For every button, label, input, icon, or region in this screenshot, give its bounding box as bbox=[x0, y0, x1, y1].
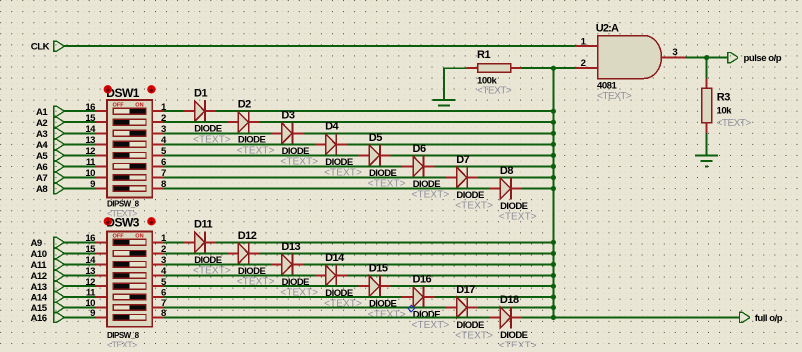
diode D17 bbox=[446, 297, 478, 319]
wire D16 cathode to bus bbox=[434, 296, 553, 298]
pin stub DSW3 pin 13 bbox=[96, 275, 107, 277]
svg-text:<TEXT>: <TEXT> bbox=[499, 212, 537, 223]
svg-text:13: 13 bbox=[85, 266, 95, 277]
DIP switch DSW3 (DIPSW_8) bbox=[107, 231, 152, 326]
wire bus to full o/p terminal bbox=[553, 316, 739, 318]
pin stub DSW1 pin 1 bbox=[152, 110, 163, 112]
diode D16 bbox=[402, 286, 434, 308]
svg-text:<TEXT>: <TEXT> bbox=[597, 91, 632, 102]
wire DSW1 pin 7 to D7 anode bbox=[164, 177, 446, 179]
svg-text:D1: D1 bbox=[194, 88, 207, 100]
svg-text:ON: ON bbox=[135, 102, 143, 108]
svg-text:<TEXT>: <TEXT> bbox=[412, 190, 450, 201]
diode D15 bbox=[359, 275, 391, 297]
wire junction down to R3 bbox=[706, 58, 708, 79]
svg-text:11: 11 bbox=[86, 288, 96, 299]
wire A4 to DSW1 pin 13 bbox=[63, 143, 96, 145]
terminal full o/p bbox=[739, 312, 749, 322]
svg-text:10: 10 bbox=[85, 168, 95, 179]
wire DSW1 pin 1 to D1 anode bbox=[164, 110, 184, 112]
pin stub DSW1 pin 7 bbox=[152, 177, 163, 179]
svg-text:14: 14 bbox=[85, 255, 96, 266]
diode D4 bbox=[315, 133, 347, 155]
svg-text:D2: D2 bbox=[238, 99, 251, 111]
wire A16 to DSW3 pin 9 bbox=[63, 316, 96, 318]
pin stub DSW3 pin 8 bbox=[152, 316, 163, 318]
wire D14 cathode to bus bbox=[347, 275, 553, 277]
wire A1 to DSW1 pin 16 bbox=[63, 110, 96, 112]
svg-text:12: 12 bbox=[85, 146, 95, 157]
junction row 1 bottom bbox=[551, 240, 556, 245]
svg-text:14: 14 bbox=[85, 124, 96, 135]
svg-text:A8: A8 bbox=[36, 184, 48, 195]
junction row 5 bottom bbox=[551, 284, 556, 289]
wire A5 to DSW1 pin 12 bbox=[63, 154, 96, 156]
junction row 1 top bbox=[551, 109, 556, 114]
junction row 2 top bbox=[551, 120, 556, 125]
wire CLK to U2:A pin 1 bbox=[63, 45, 575, 47]
svg-text:A14: A14 bbox=[31, 293, 48, 304]
svg-text:<TEXT>: <TEXT> bbox=[107, 340, 137, 347]
wire D13 cathode to bus bbox=[303, 263, 553, 265]
pin numbers DSW3 left (16..9) bbox=[85, 233, 96, 319]
terminal A1 bbox=[54, 106, 64, 116]
junction row 7 top bbox=[551, 175, 556, 180]
wire A3 to DSW1 pin 14 bbox=[63, 132, 96, 134]
pin stub DSW1 pin 8 bbox=[152, 188, 163, 190]
svg-text:D14: D14 bbox=[325, 252, 345, 264]
resistor R3 bbox=[702, 88, 712, 122]
svg-text:A13: A13 bbox=[31, 282, 47, 293]
wire A12 to DSW3 pin 13 bbox=[63, 275, 96, 277]
wire D4 cathode to bus bbox=[347, 143, 553, 145]
wire D7 cathode to bus bbox=[478, 177, 553, 179]
junction row 6 top bbox=[551, 164, 556, 169]
junction R1/bus/U2 pin 2 bbox=[551, 66, 556, 71]
terminal A10 bbox=[54, 248, 64, 258]
terminal A6 bbox=[54, 161, 64, 171]
wire DSW3 pin 6 to D16 anode bbox=[164, 296, 403, 298]
terminal A7 bbox=[54, 172, 64, 182]
wire DSW3 pin 4 to D14 anode bbox=[164, 275, 315, 277]
terminal A9 bbox=[54, 237, 64, 247]
junction row 3 top bbox=[551, 131, 556, 136]
diode D12 bbox=[227, 242, 259, 264]
svg-text:A11: A11 bbox=[31, 260, 48, 271]
terminal A8 bbox=[54, 183, 64, 193]
svg-text:D7: D7 bbox=[456, 154, 469, 166]
svg-text:A6: A6 bbox=[36, 162, 47, 173]
svg-text:A7: A7 bbox=[36, 173, 47, 184]
svg-text:DIPSW_8: DIPSW_8 bbox=[107, 199, 140, 208]
wire D2 cathode to bus bbox=[260, 121, 554, 123]
svg-text:A12: A12 bbox=[31, 271, 47, 282]
pin stub DSW1 pin 10 bbox=[96, 177, 107, 179]
wire DSW1 pin 6 to D6 anode bbox=[164, 165, 403, 167]
pin stub U2:A pin 1 bbox=[575, 45, 598, 47]
pin stub DSW1 pin 14 bbox=[96, 132, 107, 134]
pin stub DSW1 pin 6 bbox=[152, 165, 163, 167]
resistor R1 bbox=[478, 64, 511, 72]
pin numbers DSW3 right (1..8) bbox=[161, 233, 167, 319]
wire ground to R1 left bbox=[444, 68, 467, 100]
diode D8 bbox=[490, 178, 522, 200]
AND gate U2:A (4081) bbox=[598, 36, 662, 79]
pin stub DSW3 pin 3 bbox=[152, 263, 163, 265]
pin stub DSW1 pin 2 bbox=[152, 121, 163, 123]
pin stub DSW3 pin 2 bbox=[152, 252, 163, 254]
diode D18 bbox=[490, 306, 522, 328]
diode D2 bbox=[227, 111, 259, 133]
origin markers DSW1 bbox=[104, 85, 156, 93]
svg-text:<TEXT>: <TEXT> bbox=[477, 85, 512, 96]
svg-text:R3: R3 bbox=[717, 91, 730, 103]
terminal A3 bbox=[54, 128, 64, 138]
junction row 8 top bbox=[551, 186, 556, 191]
svg-text:A5: A5 bbox=[36, 151, 48, 162]
pin stub U2:A pin 2 bbox=[575, 67, 598, 69]
wire D3 cathode to bus bbox=[303, 132, 553, 134]
ground GND1 bbox=[433, 100, 456, 111]
wire A11 to DSW3 pin 14 bbox=[63, 263, 96, 265]
svg-text:D4: D4 bbox=[325, 121, 339, 133]
wire A2 to DSW1 pin 15 bbox=[63, 121, 96, 123]
pin stub U2:A pin 3 bbox=[662, 57, 686, 59]
svg-text:9: 9 bbox=[90, 179, 95, 190]
wire A15 to DSW3 pin 10 bbox=[63, 307, 96, 309]
pin stub DSW1 pin 12 bbox=[96, 154, 107, 156]
pin stub DSW3 pin 16 bbox=[96, 241, 107, 243]
wire U2 pin 3 to junction bbox=[685, 57, 707, 59]
svg-text:<TEXT>: <TEXT> bbox=[455, 331, 493, 342]
svg-text:A3: A3 bbox=[36, 129, 47, 140]
junction row 2 bottom bbox=[551, 251, 556, 256]
wire D5 cathode to bus bbox=[391, 154, 554, 156]
wire D11 cathode to bus bbox=[216, 241, 554, 243]
wire DSW1 pin 2 to D2 anode bbox=[164, 121, 228, 123]
svg-text:15: 15 bbox=[85, 113, 96, 124]
junction row 7 bottom bbox=[551, 305, 556, 310]
terminal A2 bbox=[54, 117, 64, 127]
svg-text:D15: D15 bbox=[369, 263, 388, 275]
svg-text:DIODE: DIODE bbox=[500, 330, 528, 341]
wire A6 to DSW1 pin 11 bbox=[63, 165, 96, 167]
diode D14 bbox=[315, 265, 347, 287]
marker diamond near D16 bbox=[408, 305, 414, 312]
svg-text:16: 16 bbox=[85, 233, 95, 244]
wire DSW3 pin 1 to D11 anode bbox=[164, 241, 184, 243]
junction row 6 bottom bbox=[551, 294, 556, 299]
terminal pulse o/p bbox=[728, 53, 738, 63]
junction row 4 bottom bbox=[551, 273, 556, 278]
wire junction to pulse terminal bbox=[707, 57, 728, 59]
svg-text:full o/p: full o/p bbox=[755, 313, 783, 324]
terminal CLK bbox=[54, 41, 64, 51]
pin stub DSW3 pin 4 bbox=[152, 275, 163, 277]
svg-text:12: 12 bbox=[85, 277, 95, 288]
pin stub DSW1 pin 15 bbox=[96, 121, 107, 123]
pin stub DSW3 pin 14 bbox=[96, 263, 107, 265]
pin stub DSW1 pin 11 bbox=[96, 165, 107, 167]
pin stub DSW1 pin 9 bbox=[96, 188, 107, 190]
svg-text:<TEXT>: <TEXT> bbox=[412, 320, 450, 331]
pin stub R3 pin 1 bbox=[706, 78, 708, 88]
wire D17 cathode to bus bbox=[478, 307, 553, 309]
wire A7 to DSW1 pin 10 bbox=[63, 177, 96, 179]
wire A9 to DSW3 pin 16 bbox=[63, 241, 96, 243]
wire DSW1 pin 4 to D4 anode bbox=[164, 143, 315, 145]
svg-text:<TEXT>: <TEXT> bbox=[455, 201, 493, 212]
svg-text:D16: D16 bbox=[413, 273, 432, 285]
svg-text:2: 2 bbox=[581, 58, 586, 69]
svg-text:D3: D3 bbox=[281, 110, 294, 122]
wire DSW1 pin 5 to D5 anode bbox=[164, 154, 359, 156]
junction row 8 bottom bbox=[551, 315, 556, 320]
wire junction to U2:A pin 2 bbox=[553, 67, 575, 69]
wire D15 cathode to bus bbox=[391, 285, 554, 287]
origin markers DSW3 bbox=[104, 217, 156, 225]
svg-text:A10: A10 bbox=[31, 249, 47, 260]
svg-text:A9: A9 bbox=[31, 238, 42, 249]
wire R1 to bus junction bbox=[522, 67, 554, 69]
svg-text:D6: D6 bbox=[413, 143, 426, 155]
wire D12 cathode to bus bbox=[260, 252, 554, 254]
pin stub DSW3 pin 11 bbox=[96, 296, 107, 298]
pin numbers DSW1 right (1..8) bbox=[161, 102, 167, 190]
junction row 5 top bbox=[551, 153, 556, 158]
svg-text:DIODE: DIODE bbox=[500, 201, 528, 212]
pin stub DSW3 pin 7 bbox=[152, 307, 163, 309]
svg-text:DIPSW_8: DIPSW_8 bbox=[107, 331, 140, 340]
svg-text:A16: A16 bbox=[31, 313, 47, 324]
pin stub DSW3 pin 6 bbox=[152, 296, 163, 298]
diode D3 bbox=[271, 122, 303, 144]
svg-text:A2: A2 bbox=[36, 118, 47, 129]
pin stub DSW3 pin 15 bbox=[96, 252, 107, 254]
wire A8 to DSW1 pin 9 bbox=[63, 188, 96, 190]
junction row 4 top bbox=[551, 142, 556, 147]
svg-text:D12: D12 bbox=[238, 230, 257, 242]
ground GND2 bbox=[695, 156, 718, 167]
pin stub DSW1 pin 3 bbox=[152, 132, 163, 134]
svg-text:OFF: OFF bbox=[113, 102, 125, 108]
wire D1 cathode to bus bbox=[216, 110, 554, 112]
pin stub DSW3 pin 9 bbox=[96, 316, 107, 318]
terminal A16 bbox=[54, 312, 64, 322]
svg-text:10k: 10k bbox=[717, 106, 733, 117]
svg-text:9: 9 bbox=[90, 308, 95, 319]
terminal A15 bbox=[54, 302, 64, 312]
pin stub DSW1 pin 4 bbox=[152, 143, 163, 145]
pin stub DSW3 pin 1 bbox=[152, 241, 163, 243]
svg-text:<TEXT>: <TEXT> bbox=[499, 341, 537, 347]
diode D13 bbox=[271, 253, 303, 275]
pin stub DSW3 pin 12 bbox=[96, 285, 107, 287]
terminal A14 bbox=[54, 292, 64, 302]
diode D11 bbox=[184, 231, 216, 253]
wire DSW1 pin 3 to D3 anode bbox=[164, 132, 272, 134]
svg-text:D18: D18 bbox=[500, 294, 519, 306]
wire DSW3 pin 5 to D15 anode bbox=[164, 285, 359, 287]
svg-text:D17: D17 bbox=[456, 284, 475, 296]
svg-text:pulse o/p: pulse o/p bbox=[744, 53, 782, 64]
wire DSW1 pin 8 to D8 anode bbox=[164, 188, 490, 190]
svg-text:A4: A4 bbox=[36, 140, 48, 151]
svg-text:<TEXT>: <TEXT> bbox=[717, 118, 752, 129]
pin stub DSW3 pin 10 bbox=[96, 307, 107, 309]
pin stub DSW1 pin 5 bbox=[152, 154, 163, 156]
pin stub DSW3 pin 5 bbox=[152, 285, 163, 287]
pin numbers DSW1 left (16..9) bbox=[85, 102, 96, 190]
pin stub DSW1 pin 16 bbox=[96, 110, 107, 112]
wire DSW3 pin 7 to D17 anode bbox=[164, 307, 446, 309]
svg-text:DIODE: DIODE bbox=[456, 190, 484, 201]
wire DSW3 pin 2 to D12 anode bbox=[164, 252, 228, 254]
wire R3 to ground bbox=[706, 133, 708, 156]
terminal A13 bbox=[54, 281, 64, 291]
diode D5 bbox=[359, 144, 391, 166]
svg-text:CLK: CLK bbox=[31, 42, 50, 53]
bus wire vertical bbox=[552, 68, 554, 317]
terminal A4 bbox=[54, 139, 64, 149]
pin stub R1 pin 2 bbox=[511, 67, 522, 69]
wire DSW3 pin 8 to D18 anode bbox=[164, 316, 490, 318]
terminal A12 bbox=[54, 270, 64, 280]
svg-text:DIODE: DIODE bbox=[456, 320, 484, 331]
diode D7 bbox=[446, 167, 478, 189]
svg-text:3: 3 bbox=[672, 47, 677, 58]
wire D18 cathode to bus bbox=[522, 316, 554, 318]
svg-text:D13: D13 bbox=[281, 241, 300, 253]
diode D1 bbox=[184, 100, 216, 122]
svg-text:16: 16 bbox=[85, 102, 95, 113]
svg-text:U2:A: U2:A bbox=[596, 23, 619, 35]
svg-text:D5: D5 bbox=[369, 132, 382, 144]
wire A10 to DSW3 pin 15 bbox=[63, 252, 96, 254]
svg-text:R1: R1 bbox=[477, 49, 490, 61]
svg-text:D8: D8 bbox=[500, 165, 513, 177]
wire D8 cathode to bus bbox=[522, 188, 554, 190]
wire A14 to DSW3 pin 11 bbox=[63, 296, 96, 298]
wire D6 cathode to bus bbox=[434, 165, 553, 167]
svg-text:15: 15 bbox=[85, 244, 96, 255]
svg-text:DIODE: DIODE bbox=[413, 310, 441, 321]
DIP switch DSW1 (DIPSW_8) bbox=[107, 100, 152, 197]
terminal A5 bbox=[54, 150, 64, 160]
pin stub R3 pin 2 bbox=[706, 123, 708, 133]
junction row 3 bottom bbox=[551, 262, 556, 267]
wire A13 to DSW3 pin 12 bbox=[63, 285, 96, 287]
pin stub R1 pin 1 bbox=[467, 67, 478, 69]
wire DSW3 pin 3 to D13 anode bbox=[164, 263, 272, 265]
svg-text:13: 13 bbox=[85, 135, 95, 146]
svg-text:A1: A1 bbox=[36, 107, 48, 118]
terminal A11 bbox=[54, 259, 64, 269]
svg-text:D11: D11 bbox=[194, 219, 212, 231]
svg-text:11: 11 bbox=[86, 157, 96, 168]
junction pulse output bbox=[704, 55, 709, 60]
svg-text:<TEXT>: <TEXT> bbox=[368, 309, 406, 320]
pin stub DSW1 pin 13 bbox=[96, 143, 107, 145]
diode D6 bbox=[402, 155, 434, 177]
svg-text:4081: 4081 bbox=[597, 80, 618, 91]
